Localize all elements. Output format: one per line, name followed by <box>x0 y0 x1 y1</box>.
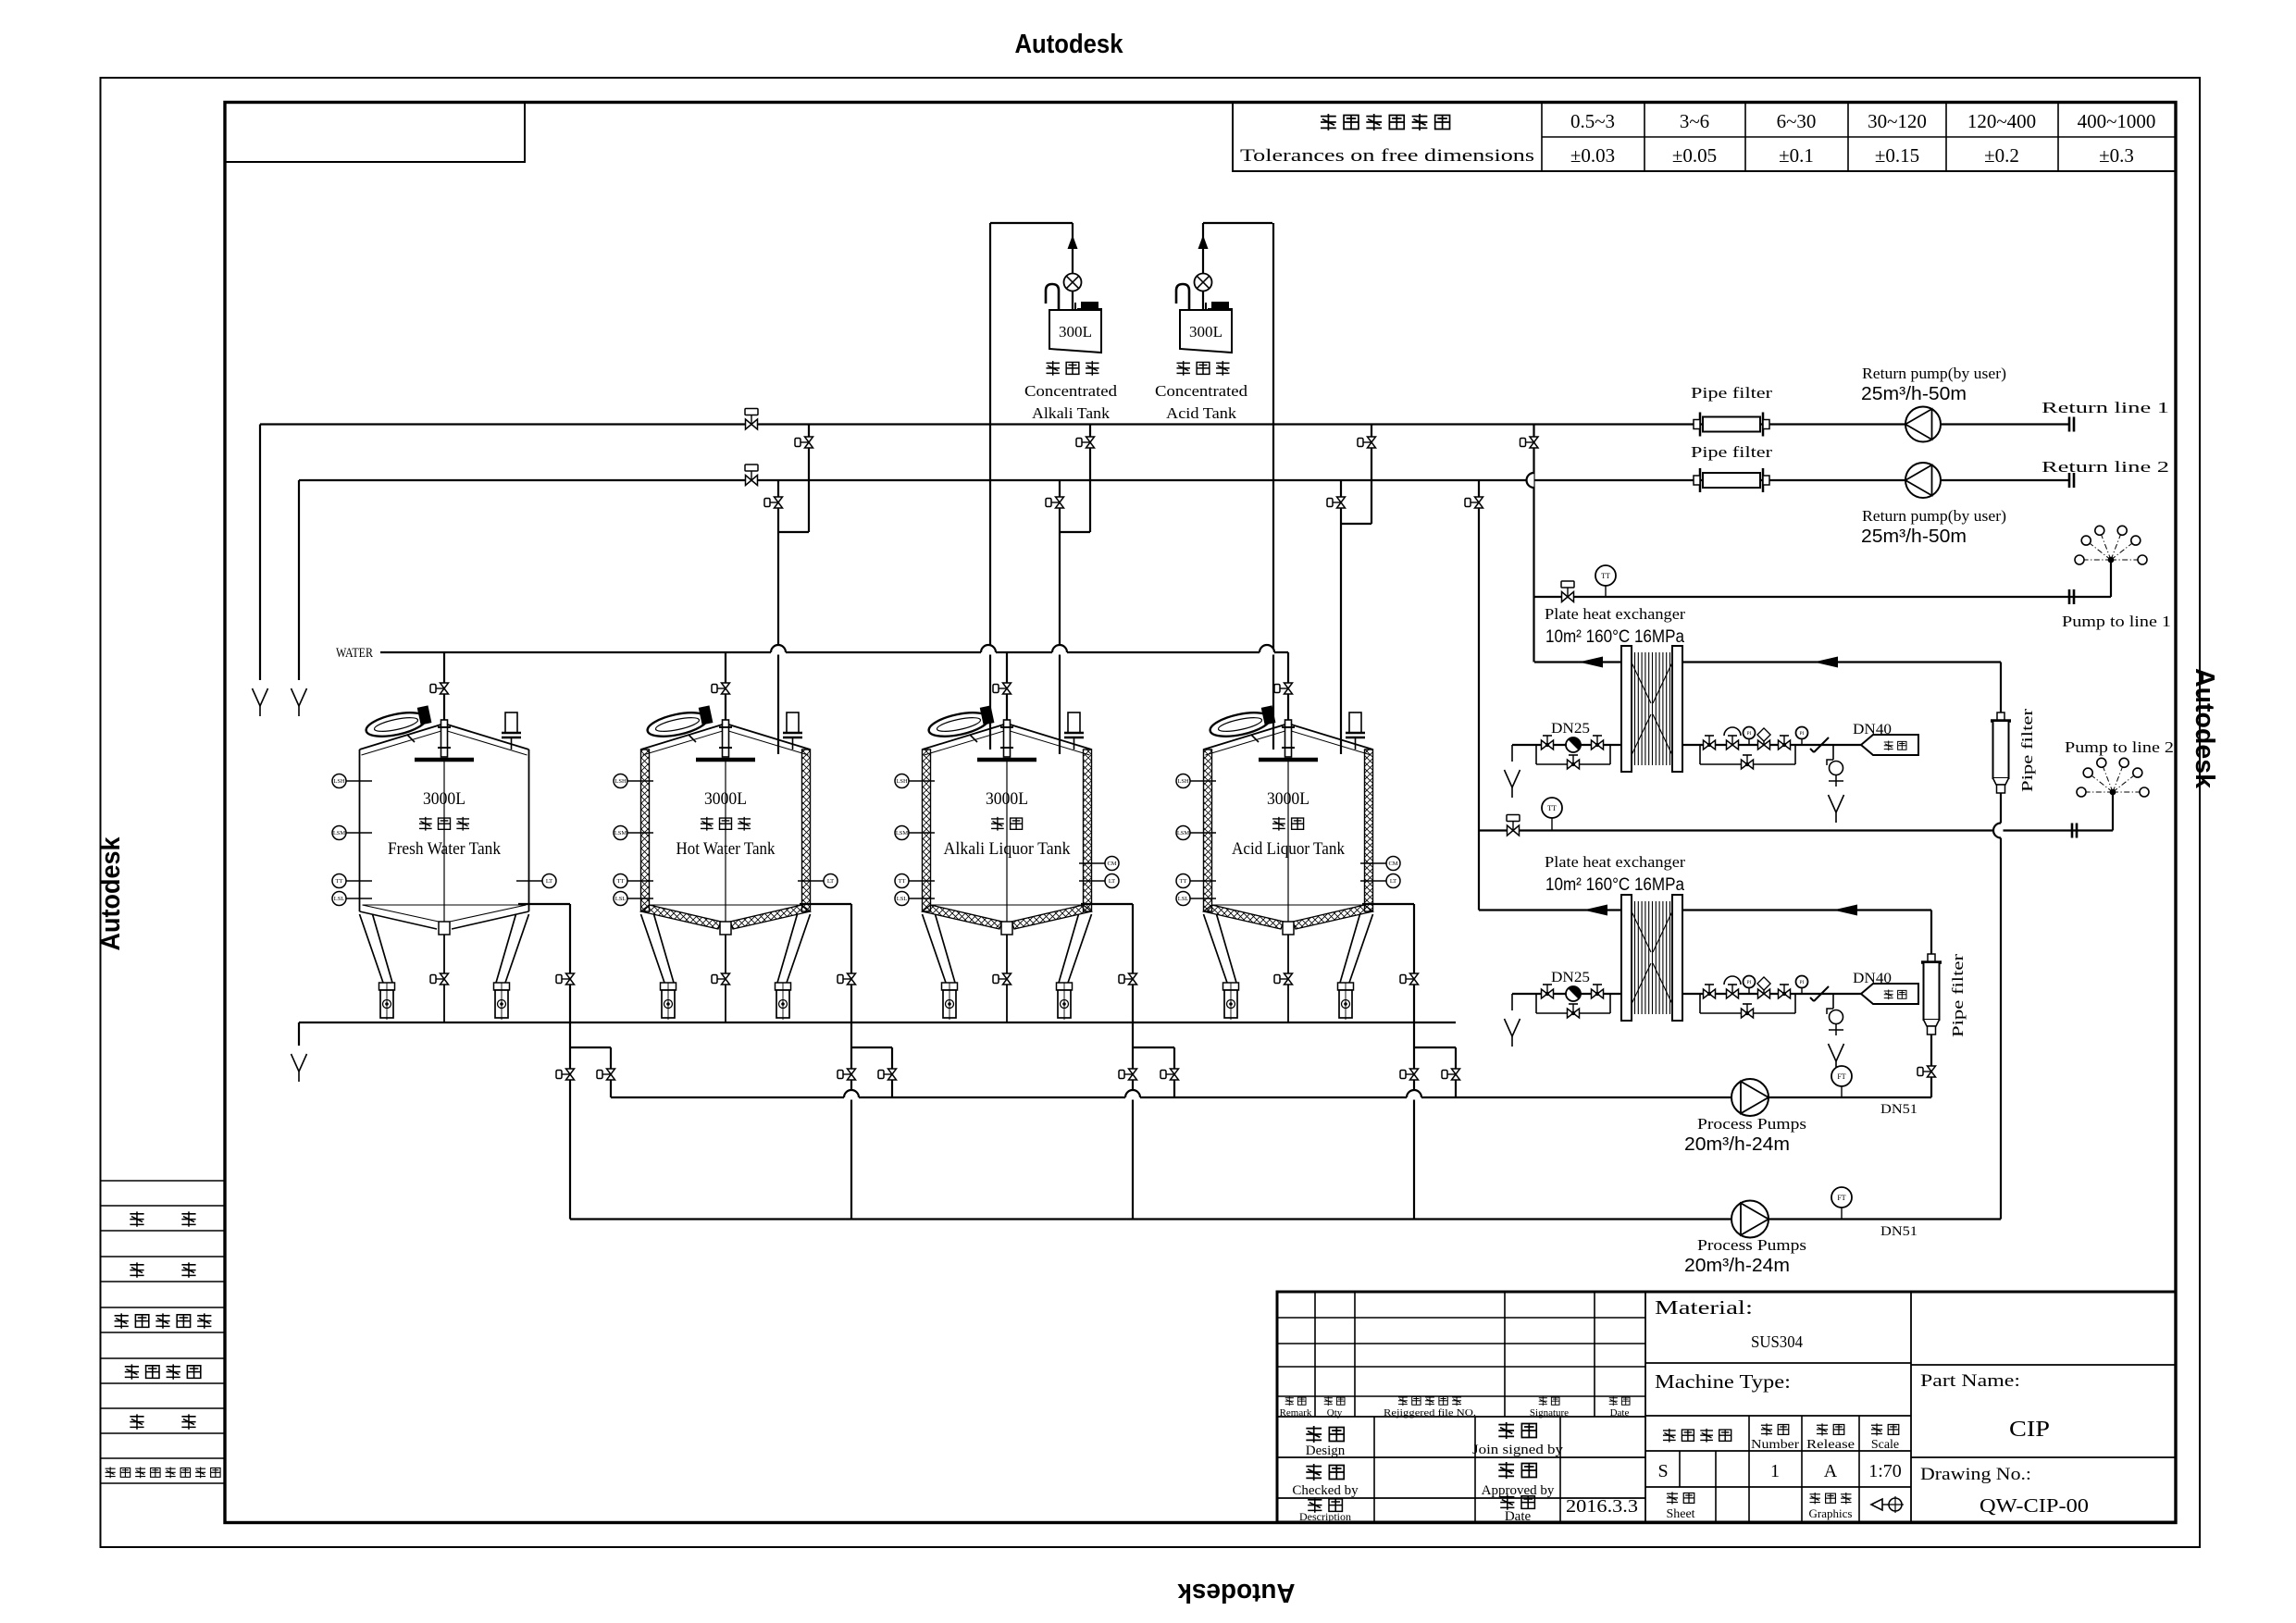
svg-text:Autodesk: Autodesk <box>1177 1578 1296 1607</box>
svg-text:10m² 160°C 16MPa: 10m² 160°C 16MPa <box>1545 875 1684 895</box>
drain Y return line 2 <box>292 688 307 716</box>
svg-text:LSM: LSM <box>896 830 909 836</box>
steam trap assembly E2 <box>1827 994 1844 1072</box>
label Return pump 1 <box>1861 365 2006 404</box>
manhole tank T3 <box>926 705 995 740</box>
tolerance column 400~1000 <box>2078 110 2156 167</box>
svg-text:Drawing No.:: Drawing No.: <box>1920 1465 2031 1484</box>
label Drawing No.: QW-CIP-00 <box>1920 1465 2089 1517</box>
valve on return line 1 <box>745 409 758 430</box>
valve on spray line 2 <box>1507 815 1520 836</box>
pipe steam bypass right E2 <box>1700 994 1795 1013</box>
valve steam E2 V4 <box>1779 985 1791 998</box>
sensor LSM tank T3 <box>895 826 935 840</box>
svg-text:3000L: 3000L <box>423 789 465 809</box>
svg-text:DN51: DN51 <box>1880 1102 1917 1117</box>
svg-text:3000L: 3000L <box>986 789 1028 809</box>
pipe tank T3 center drain <box>1006 935 1008 1022</box>
svg-text:Process Pumps: Process Pumps <box>1697 1236 1806 1254</box>
valve tank T3 outlet <box>1119 973 1137 985</box>
label 借(通)用件登记 <box>105 1467 220 1478</box>
valve steam E1 V2 <box>1592 736 1604 750</box>
arrow HX2 line b <box>1833 905 1857 916</box>
pipe dosing riser <box>1202 223 1204 310</box>
svg-text:FT: FT <box>1837 1194 1845 1202</box>
valve return drop L1 tank 4 <box>1358 437 1376 448</box>
pipe branch jog T4 <box>1414 1047 1456 1097</box>
dosing pump circle <box>1064 274 1082 291</box>
label 签字 <box>130 1414 195 1429</box>
sensor LSL tank T4 <box>1176 892 1216 906</box>
pipe dosing header A <box>990 222 1073 224</box>
svg-text:DN40: DN40 <box>1853 722 1892 737</box>
steam flag E1 <box>1861 735 1918 755</box>
valve steam bypass left E1 <box>1568 755 1580 769</box>
pipe return line 1 left drop <box>259 425 261 681</box>
arrow HX2 line a <box>1583 905 1607 916</box>
label Concentrated Acid Tank <box>1155 382 1248 422</box>
svg-text:WATER: WATER <box>336 646 373 661</box>
svg-text:LSH: LSH <box>614 778 627 785</box>
manhole tank T2 <box>645 705 714 740</box>
pipe filter F4 (vertical, line2 loop) <box>1921 954 1942 1035</box>
tank T3 Alkali Liquor Tank 3000L <box>923 724 1092 1020</box>
pipe steam line E2 DN25-DN40 <box>1512 993 1861 995</box>
pipe water supply line <box>380 651 1288 653</box>
tick return line 2 <box>2068 473 2071 488</box>
crossing arc pump1 manifold x=1528 <box>1407 1096 1421 1100</box>
svg-text:LSM: LSM <box>1177 830 1190 836</box>
sensor CM tank T4 <box>1360 857 1400 871</box>
valve branch to pump1 manifold T2 <box>878 1069 897 1080</box>
svg-text:S: S <box>1657 1461 1668 1481</box>
label 审定 Approved by <box>1482 1462 1555 1498</box>
valve tank T3 center drain <box>993 973 1011 985</box>
pipe return line 2 <box>299 479 2069 481</box>
tank T4 Acid Liquor Tank 3000L <box>1204 724 1373 1020</box>
top-left corner box <box>225 103 525 163</box>
valve return drop L1 tank 3 <box>1076 437 1095 448</box>
pipe return drop pair tank 2 <box>778 425 809 755</box>
pipe spray line 2 (pump to line 2) <box>1479 829 2113 831</box>
svg-text:Scale: Scale <box>1871 1438 1899 1452</box>
label 浓酸罐 <box>1046 361 1098 376</box>
sensor LT tank T3 <box>1079 874 1119 888</box>
plate heat exchanger E2 <box>1621 895 1682 1021</box>
svg-text:Number: Number <box>1751 1438 1799 1452</box>
label Concentrated Alkali Tank <box>1024 382 1118 422</box>
svg-text:Date: Date <box>1610 1407 1630 1419</box>
gauge FT pump2 line <box>1831 1187 1852 1220</box>
sensor LT tank T4 <box>1360 874 1400 888</box>
spray ball 2 <box>2077 758 2149 797</box>
svg-text:Pipe filter: Pipe filter <box>1691 443 1772 461</box>
svg-text:TT: TT <box>336 878 343 885</box>
crossing arc water line x=1145 <box>1052 650 1067 655</box>
svg-text:Plate heat exchanger: Plate heat exchanger <box>1545 853 1685 871</box>
valve steam bypass left E2 <box>1568 1004 1580 1018</box>
pipe filter F3 (vertical, line1 loop) <box>1991 712 2011 793</box>
svg-text:±0.3: ±0.3 <box>2099 144 2134 167</box>
sensor TT tank T1 <box>332 874 372 888</box>
valve on return line 2 <box>745 465 758 486</box>
pipe return drop pair tank 3 <box>1060 425 1090 755</box>
svg-text:Process Pumps: Process Pumps <box>1697 1115 1806 1133</box>
label 热水罐 <box>701 817 751 831</box>
label 未注尺寸公差 <box>1321 114 1449 130</box>
return pump P2 <box>1905 463 1941 498</box>
label 数量 Number <box>1751 1423 1799 1452</box>
svg-text:DN25: DN25 <box>1551 721 1590 737</box>
svg-text:3~6: 3~6 <box>1680 110 1709 132</box>
pipe steam bypass left E1 <box>1536 745 1610 764</box>
sensor LSL tank T2 <box>614 892 653 906</box>
label 图样标记 <box>1663 1429 1731 1443</box>
svg-text:LT: LT <box>827 878 834 885</box>
check valve E1 <box>1810 737 1829 752</box>
concentrated chemical tank B (300L) <box>1176 284 1233 353</box>
label 种类 Description <box>1299 1497 1351 1523</box>
svg-text:Autodesk: Autodesk <box>2190 668 2219 789</box>
svg-text:25m³/h-50m: 25m³/h-50m <box>1861 527 1967 547</box>
pipe tank T3 outlet <box>1081 904 1133 1220</box>
svg-text:LSL: LSL <box>1178 896 1189 902</box>
manhole tank T4 <box>1208 705 1276 740</box>
valve return drop L2 tank 2 <box>764 497 783 508</box>
valve tank T1 outlet <box>556 973 575 985</box>
pipe return line 1 <box>260 423 2069 425</box>
svg-text:Autodesk: Autodesk <box>96 836 126 951</box>
agitator/CIP column tank T1 <box>415 720 474 922</box>
agitator/CIP column tank T2 <box>696 720 755 922</box>
svg-text:TT: TT <box>1547 804 1557 812</box>
inner drawing frame <box>225 103 2176 1523</box>
valve water riser tank 2 <box>712 683 730 694</box>
agitator/CIP column tank T3 <box>977 720 1036 922</box>
left margin signature table <box>101 1181 226 1483</box>
label Plate heat exchanger E1 <box>1545 605 1685 647</box>
gauge PI E1 a <box>1744 727 1756 746</box>
svg-text:PI: PI <box>1800 731 1805 737</box>
svg-text:TT: TT <box>899 878 906 885</box>
arrow up on dosing riser <box>1198 235 1209 249</box>
svg-text:20m³/h-24m: 20m³/h-24m <box>1684 1134 1790 1155</box>
svg-text:Date: Date <box>1505 1509 1532 1524</box>
sensor LSL tank T1 <box>332 892 372 906</box>
pipe HX2 top line <box>1479 909 1931 911</box>
valve branch to pump1 manifold T4 <box>1442 1069 1460 1080</box>
sensor LSH tank T2 <box>614 774 653 788</box>
pipe HX1 top line <box>1534 661 2001 663</box>
valve water riser tank 4 <box>1274 683 1293 694</box>
svg-text:1: 1 <box>1770 1461 1780 1481</box>
label Process Pumps 2 <box>1684 1236 1806 1276</box>
crossing arc pump1 manifold x=920 <box>844 1096 859 1100</box>
pipe filter F1 (return line 1) <box>1694 413 1769 437</box>
svg-text:TT: TT <box>1601 572 1610 580</box>
svg-text:LT: LT <box>1390 878 1396 885</box>
control valve E2 <box>1758 985 1770 998</box>
svg-text:SUS304: SUS304 <box>1751 1332 1803 1351</box>
svg-text:CM: CM <box>1107 861 1116 867</box>
svg-text:Pump to line 2: Pump to line 2 <box>2065 738 2174 756</box>
valve branch to pump1 manifold T1 <box>597 1069 615 1080</box>
svg-text:Return line 2: Return line 2 <box>2042 458 2169 476</box>
sensor LSH tank T1 <box>332 774 372 788</box>
gauge TT spray line 2 <box>1542 798 1562 831</box>
svg-text:DN40: DN40 <box>1853 971 1892 986</box>
sensor LSH tank T4 <box>1176 774 1216 788</box>
valve steam E1 V4 <box>1779 736 1791 750</box>
arrow up on dosing riser <box>1068 235 1078 249</box>
label 标记 Remark <box>1280 1396 1312 1419</box>
svg-text:CM: CM <box>1388 861 1397 867</box>
label 设计 Design <box>1306 1426 1346 1458</box>
svg-text:Description: Description <box>1299 1510 1351 1523</box>
svg-text:LSL: LSL <box>334 896 345 902</box>
crossing arc water line x=1068 <box>981 650 996 655</box>
svg-text:Return pump(by user): Return pump(by user) <box>1862 507 2006 525</box>
tolerance column 6~30 <box>1777 110 1817 167</box>
label 处数 Qty <box>1324 1396 1345 1419</box>
svg-text:±0.2: ±0.2 <box>1984 144 2019 167</box>
pipe water riser tank 4 <box>1287 652 1289 725</box>
pipe riser return1 to HX1/spray1 <box>1533 425 1534 663</box>
pipe tank T1 center drain <box>443 935 445 1022</box>
title block frame <box>1277 1292 2176 1522</box>
svg-text:CIP: CIP <box>2009 1418 2050 1442</box>
svg-text:Concentrated: Concentrated <box>1024 382 1118 400</box>
pipe tank drain manifold <box>299 1022 1456 1023</box>
label 页数 Sheet <box>1666 1492 1694 1521</box>
label 描图 <box>130 1211 195 1226</box>
pipe process pump 2 suction manifold <box>570 1218 2001 1220</box>
pipe branch jog T3 <box>1133 1047 1174 1097</box>
steam flag E2 <box>1861 984 1918 1004</box>
valve main to pump2 manifold T4 <box>1400 1069 1419 1080</box>
svg-text:3000L: 3000L <box>1267 789 1309 809</box>
svg-text:Acid Tank: Acid Tank <box>1166 404 1237 422</box>
top nozzle tank T2 <box>783 712 802 750</box>
valve riser pump1 <box>1917 1066 1936 1077</box>
valve tank T1 center drain <box>430 973 449 985</box>
sensor LSM tank T1 <box>332 826 372 840</box>
pipe dosing drop to acid tank <box>1272 223 1274 750</box>
valve water riser tank 1 <box>430 683 449 694</box>
pipe dosing header B <box>1203 222 1272 224</box>
valve main to pump2 manifold T1 <box>556 1069 575 1080</box>
valve main to pump2 manifold T2 <box>838 1069 856 1080</box>
label Return pump 2 <box>1861 507 2006 547</box>
label 更改文件号 Rejiggered file NO. <box>1384 1395 1476 1419</box>
sensor TT tank T2 <box>614 874 653 888</box>
svg-text:FT: FT <box>1837 1072 1845 1081</box>
svg-text:Checked by: Checked by <box>1292 1483 1359 1498</box>
svg-text:Pipe filter: Pipe filter <box>1949 954 1967 1037</box>
svg-text:QW-CIP-00: QW-CIP-00 <box>1980 1494 2089 1517</box>
svg-text:±0.15: ±0.15 <box>1875 144 1919 167</box>
label 审核 Join signed by <box>1472 1422 1564 1457</box>
svg-text:PI: PI <box>1800 980 1805 985</box>
svg-text:Rejiggered file NO.: Rejiggered file NO. <box>1384 1407 1476 1419</box>
pipe filter F2 (return line 2) <box>1694 468 1769 492</box>
label 签字 Signature <box>1530 1396 1569 1419</box>
svg-text:Autodesk: Autodesk <box>1015 30 1124 59</box>
valve water riser tank 3 <box>993 683 1011 694</box>
label 日期 Date <box>1609 1396 1630 1419</box>
svg-text:20m³/h-24m: 20m³/h-24m <box>1684 1256 1790 1276</box>
valve steam E2 V2 <box>1592 985 1604 998</box>
valve steam bypass right E1 <box>1742 755 1754 769</box>
svg-text:300L: 300L <box>1059 323 1092 341</box>
valve tank T2 outlet <box>838 973 856 985</box>
svg-text:Approved by: Approved by <box>1482 1483 1555 1498</box>
pipe spray1 stem <box>2110 560 2112 597</box>
process pump P3 <box>1731 1079 1769 1116</box>
svg-text:LSM: LSM <box>333 830 346 836</box>
svg-text:Pipe filter: Pipe filter <box>1691 384 1772 402</box>
svg-text:DN25: DN25 <box>1551 970 1590 985</box>
drain Y steam inlet E1 <box>1505 745 1520 798</box>
return pump P1 <box>1905 407 1941 442</box>
pipe return drop pair tank 4 <box>1341 425 1371 755</box>
pipe riser return2 to HX2/spray2 <box>1478 480 1480 911</box>
label 底图总号 <box>125 1364 201 1379</box>
pipe branch jog T2 <box>851 1047 892 1097</box>
svg-text:Concentrated: Concentrated <box>1155 382 1248 400</box>
svg-text:Acid Liquor Tank: Acid Liquor Tank <box>1232 839 1345 859</box>
label Material: SUS304 <box>1655 1296 1803 1351</box>
valve return drop L2 tank 3 <box>1046 497 1064 508</box>
valve return drop L2 tank 4 <box>1327 497 1346 508</box>
crossing arc pump1 manifold x=1224 <box>1125 1096 1140 1100</box>
svg-text:LSM: LSM <box>614 830 627 836</box>
sensor LSM tank T2 <box>614 826 653 840</box>
tank T2 Hot Water Tank 3000L <box>641 724 811 1020</box>
top nozzle tank T4 <box>1346 712 1365 750</box>
svg-text:Graphics: Graphics <box>1809 1506 1853 1520</box>
svg-text:Tolerances on free dimensions: Tolerances on free dimensions <box>1240 146 1534 166</box>
pipe water riser tank 2 <box>725 652 726 725</box>
pipe riser HX2 to pump1 manifold <box>1930 911 1932 1098</box>
valve steam E1 V3 <box>1704 736 1716 750</box>
relief valve E1 <box>1727 736 1739 750</box>
svg-text:Signature: Signature <box>1530 1407 1569 1419</box>
tick spray line 1 <box>2068 589 2071 604</box>
pipe tank T2 center drain <box>725 935 726 1022</box>
svg-text:PI: PI <box>1747 980 1752 985</box>
sensor CM tank T3 <box>1079 857 1119 871</box>
svg-text:Qty: Qty <box>1327 1407 1343 1419</box>
svg-text:30~120: 30~120 <box>1868 110 1927 132</box>
agitator/CIP column tank T4 <box>1259 720 1318 922</box>
svg-text:LT: LT <box>546 878 552 885</box>
tolerance column 3~6 <box>1672 110 1717 167</box>
valve tank T4 center drain <box>1274 973 1293 985</box>
pipe manifold left drop <box>298 1022 300 1046</box>
valve return drop L1 tank 2 <box>795 437 813 448</box>
top nozzle tank T1 <box>502 712 521 750</box>
pipe steam bypass right E1 <box>1700 745 1795 764</box>
valve steam E2 V3 <box>1704 985 1716 998</box>
tolerance column 0.5~3 <box>1570 110 1615 167</box>
pipe tank T1 outlet <box>518 904 570 1220</box>
manhole tank T1 <box>364 705 432 740</box>
dosing pump circle <box>1195 274 1212 291</box>
pipe dosing riser <box>1072 223 1074 310</box>
svg-text:DN51: DN51 <box>1880 1224 1917 1239</box>
pipe steam line E1 DN25-DN40 <box>1512 744 1861 746</box>
label 浓碱罐 <box>1176 361 1229 376</box>
valve on riser to spray2 <box>1465 497 1483 508</box>
svg-text:2016.3.3: 2016.3.3 <box>1566 1496 1638 1517</box>
tank T1 Fresh Water Tank 3000L <box>360 724 529 1020</box>
pipe branch jog T1 <box>570 1047 611 1097</box>
svg-text:Pump to line 1: Pump to line 1 <box>2062 613 2171 630</box>
valve steam E1 V1 <box>1542 736 1554 750</box>
svg-text:±0.05: ±0.05 <box>1672 144 1717 167</box>
ball valve steam E2 (DN25 regulator) <box>1566 986 1581 1001</box>
svg-text:Alkali Tank: Alkali Tank <box>1032 404 1111 422</box>
svg-text:25m³/h-50m: 25m³/h-50m <box>1861 384 1967 404</box>
pipe tank T4 center drain <box>1287 935 1289 1022</box>
drain Y return line 1 <box>253 688 268 716</box>
pipe tank T2 outlet <box>800 904 851 1220</box>
svg-text:LSL: LSL <box>897 896 908 902</box>
label Process Pumps 1 <box>1684 1115 1806 1155</box>
crossing arc water line x=841 <box>771 650 786 655</box>
valve steam E2 V1 <box>1542 985 1554 998</box>
svg-text:1:70: 1:70 <box>1868 1461 1902 1481</box>
svg-text:300L: 300L <box>1189 323 1222 341</box>
valve on riser to spray1 <box>1520 437 1539 448</box>
drain Y manifold <box>292 1054 307 1082</box>
svg-text:LSH: LSH <box>896 778 908 785</box>
svg-text:A: A <box>1824 1461 1838 1481</box>
svg-text:±0.03: ±0.03 <box>1570 144 1615 167</box>
pipe riser HX1 to pump2 manifold <box>2000 663 2002 1220</box>
svg-text:Pipe filter: Pipe filter <box>2018 709 2036 792</box>
label Part Name: CIP <box>1920 1371 2050 1442</box>
svg-text:400~1000: 400~1000 <box>2078 110 2156 132</box>
first-angle projection symbol <box>1871 1496 1904 1513</box>
svg-text:Part Name:: Part Name: <box>1920 1371 2020 1391</box>
svg-text:6~30: 6~30 <box>1777 110 1817 132</box>
svg-text:PI: PI <box>1747 731 1752 737</box>
sensor LT tank T2 <box>798 874 838 888</box>
relief valve E2 <box>1727 985 1739 998</box>
svg-text:Return line 1: Return line 1 <box>2042 399 2169 416</box>
label 旧底图总号 <box>115 1313 212 1328</box>
svg-text:120~400: 120~400 <box>1967 110 2036 132</box>
gauge PI E2 b <box>1796 976 1808 995</box>
svg-text:LSH: LSH <box>1177 778 1189 785</box>
pipe dosing drop to alkali tank <box>989 223 991 750</box>
label 制图法 Graphics <box>1809 1493 1853 1520</box>
sensor TT tank T3 <box>895 874 935 888</box>
svg-text:TT: TT <box>617 878 625 885</box>
svg-text:Alkali Liquor Tank: Alkali Liquor Tank <box>944 839 1071 859</box>
label 校对 Checked by <box>1292 1464 1359 1498</box>
check valve E2 <box>1810 986 1829 1001</box>
sensor LSH tank T3 <box>895 774 935 788</box>
crossing arc water line x=1369 <box>1260 650 1274 655</box>
gauge FT pump1 line <box>1831 1066 1852 1097</box>
gauge PI E1 b <box>1796 727 1808 746</box>
tolerance column 30~120 <box>1868 110 1927 167</box>
svg-text:Return pump(by user): Return pump(by user) <box>1862 365 2006 382</box>
valve branch to pump1 manifold T3 <box>1160 1069 1179 1080</box>
